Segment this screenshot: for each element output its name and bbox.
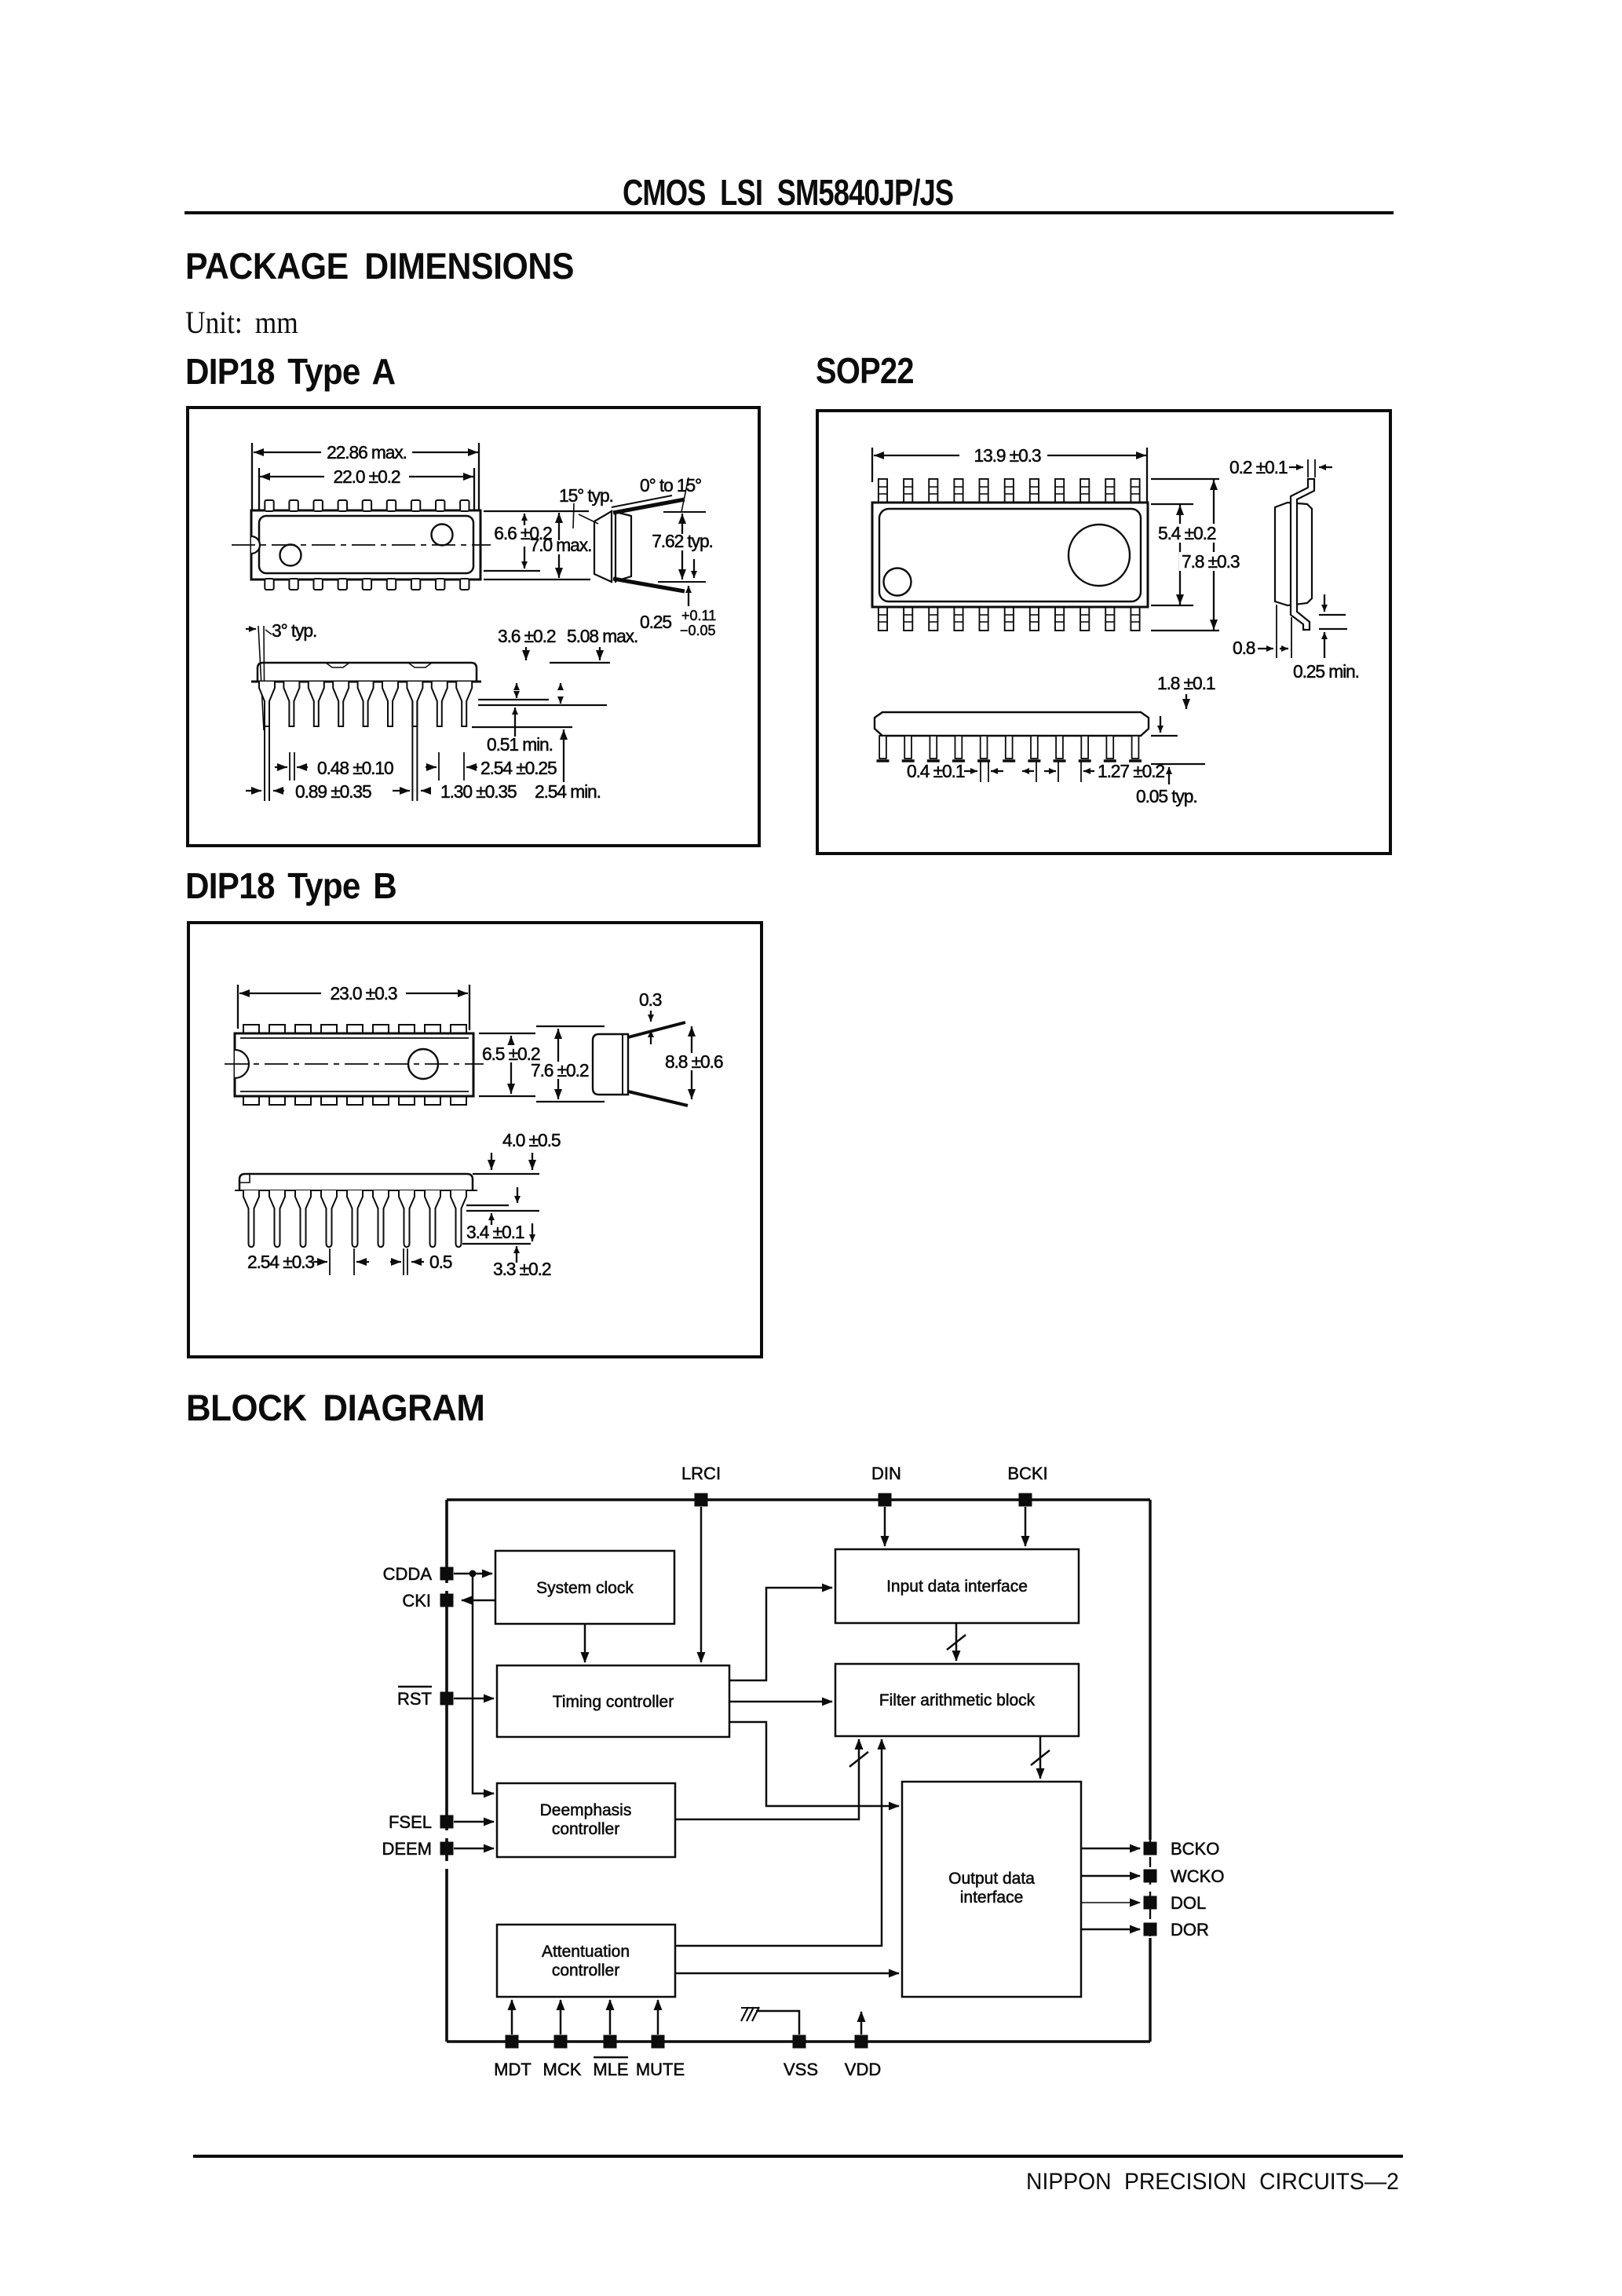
DIP18A index notch <box>251 536 260 554</box>
pin pad BCKO <box>1144 1842 1157 1855</box>
DIP18B center line <box>225 1063 484 1065</box>
DIP18A end view body <box>594 511 612 582</box>
unit note <box>185 304 298 341</box>
wire LRCI to Timing controller <box>700 1507 703 1662</box>
DIP18A label 3 deg typ <box>246 620 316 730</box>
header rule <box>184 211 1394 214</box>
pin pad CKI <box>440 1594 454 1607</box>
svg-text:0.3: 0.3 <box>639 989 662 1010</box>
DIP18A right extension lines <box>484 510 589 512</box>
chip boundary top edge <box>447 1498 1150 1501</box>
svg-text:2.54 ±0.25: 2.54 ±0.25 <box>480 758 557 778</box>
svg-text:0.48 ±0.10: 0.48 ±0.10 <box>317 758 393 778</box>
svg-text:FSEL: FSEL <box>389 1812 432 1832</box>
svg-text:5.08 max.: 5.08 max. <box>567 626 637 646</box>
DIP18B dim 23.0 +-0.3 <box>238 983 469 1030</box>
pin pad VSS <box>793 2035 806 2049</box>
wire MUTE to Attentuation controller <box>657 2000 659 2035</box>
subheading DIP18 Type B <box>185 865 396 907</box>
svg-text:MLE: MLE <box>593 2060 628 2079</box>
DIP18A dim 0.48 +-0.10 <box>275 752 393 781</box>
svg-text:Attentuation: Attentuation <box>542 1943 630 1961</box>
ground symbol <box>741 2007 759 2021</box>
DIP18B bottom view pins <box>243 1190 466 1247</box>
DIP18A dim 0.25 <box>640 559 716 638</box>
svg-text:13.9 ±0.3: 13.9 ±0.3 <box>974 445 1040 466</box>
svg-text:+0.11: +0.11 <box>681 608 716 623</box>
DIP18B package body top view <box>235 1033 473 1096</box>
svg-text:DOL: DOL <box>1171 1893 1206 1913</box>
wire MCK to Attentuation controller <box>560 2000 562 2035</box>
DIP18A bottom lead wing <box>613 512 706 591</box>
pin pad MDT <box>506 2035 519 2049</box>
block Output data interface U7 <box>902 1782 1081 1997</box>
pin pad DEEM <box>440 1842 454 1855</box>
wire Deemphasis controller to Filter arithmetic block <box>675 1739 868 1819</box>
wire Output data interface to DOL <box>1081 1902 1140 1903</box>
svg-text:3° typ.: 3° typ. <box>272 620 316 641</box>
DIP18A dim 6.6 +-0.2 <box>494 514 552 569</box>
DIP18B index notch <box>235 1050 249 1078</box>
DIP18B dim 4.0 +-0.5 <box>491 1130 561 1170</box>
DIP18B right extension lines <box>479 1033 535 1034</box>
svg-text:0.4 ±0.1: 0.4 ±0.1 <box>907 761 965 781</box>
svg-text:WCKO: WCKO <box>1171 1866 1224 1886</box>
svg-text:0.51 min.: 0.51 min. <box>487 734 553 755</box>
svg-text:controller: controller <box>552 1961 619 1980</box>
pin pad MCK <box>554 2035 568 2049</box>
DIP18A top view pin rows <box>265 500 469 590</box>
wire VSS to ground <box>756 2011 799 2035</box>
SOP22 standoff reference lines <box>1151 716 1205 784</box>
SOP22 dim 13.9 +-0.3 <box>872 445 1147 503</box>
SOP22 pin1 index circle <box>884 569 911 596</box>
SOP22 dim 0.2 +-0.1 <box>1229 457 1332 477</box>
svg-text:Timing controller: Timing controller <box>553 1693 674 1711</box>
DIP18B end view body <box>593 1034 628 1095</box>
svg-text:8.8 ±0.6: 8.8 ±0.6 <box>665 1051 723 1072</box>
svg-text:MUTE: MUTE <box>636 2060 685 2079</box>
svg-text:7.62 typ.: 7.62 typ. <box>652 531 713 551</box>
DIP18B bottom pin row <box>243 1096 466 1105</box>
DIP18A top lead wing <box>573 477 689 528</box>
svg-text:0.5: 0.5 <box>429 1252 452 1272</box>
DIP18B end view top lead wing <box>628 1022 685 1037</box>
pin pad BCKI <box>1019 1493 1032 1507</box>
wire DIN to Input data interface <box>884 1507 886 1546</box>
subheading SOP22 <box>816 349 914 392</box>
pin pad CDDA <box>440 1567 454 1581</box>
svg-text:3.3 ±0.2: 3.3 ±0.2 <box>493 1259 551 1279</box>
DIP18A dim 22.0 +-0.2 <box>259 466 474 510</box>
wire Timing controller to Input data interface <box>729 1588 832 1680</box>
svg-text:0.25: 0.25 <box>640 612 671 632</box>
svg-text:VDD: VDD <box>845 2060 881 2079</box>
svg-text:CDDA: CDDA <box>383 1564 433 1584</box>
wire System clock to CKI <box>462 1600 495 1602</box>
block Deemphasis controller U5 <box>497 1783 675 1857</box>
SOP22 package body <box>872 503 1148 607</box>
pin pad DIN <box>879 1493 892 1507</box>
wire BCKI to Input data interface <box>1025 1507 1027 1546</box>
wire Filter arithmetic block to Output data interface <box>1031 1736 1050 1779</box>
svg-text:DEEM: DEEM <box>382 1839 432 1859</box>
svg-text:Filter arithmetic block: Filter arithmetic block <box>879 1691 1036 1709</box>
DIP18B dimple circle <box>408 1049 438 1079</box>
wire CDDA to System clock <box>454 1573 492 1575</box>
chip boundary left edge <box>445 1500 448 2042</box>
svg-text:7.8 ±0.3: 7.8 ±0.3 <box>1182 551 1240 572</box>
svg-text:BCKI: BCKI <box>1007 1464 1047 1483</box>
wire Output data interface to DOR <box>1081 1929 1140 1931</box>
pin pad WCKO <box>1144 1870 1157 1883</box>
page header title <box>623 171 953 214</box>
DIP18A dim 2.54 min vertical <box>563 729 564 782</box>
block Filter arithmetic block U4 <box>835 1664 1079 1736</box>
svg-text:7.0 max.: 7.0 max. <box>530 535 592 555</box>
SOP22 dim 7.8 +-0.3 <box>1213 480 1215 630</box>
DIP18B dim 8.8 +-0.6 <box>663 1026 728 1099</box>
svg-text:Deemphasis: Deemphasis <box>540 1801 632 1819</box>
wire MDT to Attentuation controller <box>511 2000 513 2035</box>
SOP22 dim 0.4 +-0.1 <box>907 760 1036 782</box>
footer rule <box>193 2155 1403 2158</box>
block Timing controller U3 <box>497 1665 729 1737</box>
DIP18A dim 22.86 max <box>252 442 479 510</box>
DIP18B gap arrows <box>491 1187 532 1241</box>
svg-text:22.0 ±0.2: 22.0 ±0.2 <box>333 466 400 487</box>
pin pad MUTE <box>652 2035 665 2049</box>
DIP18A right reference lines <box>478 699 549 700</box>
SOP22 side view body <box>875 712 1149 736</box>
svg-text:2.54 ±0.3: 2.54 ±0.3 <box>247 1252 314 1272</box>
block Input data interface U2 <box>835 1549 1079 1623</box>
wire Output data interface to BCKO <box>1081 1848 1140 1850</box>
subheading DIP18 Type A <box>185 350 395 393</box>
DIP18B dim 2.54 +-0.3 <box>247 1249 369 1275</box>
SOP22 dim 1.8 +-0.1 <box>1157 673 1215 709</box>
SOP22 J-lead profile <box>1291 479 1314 630</box>
svg-text:22.86 max.: 22.86 max. <box>327 442 407 462</box>
wire Timing controller to Filter arithmetic block <box>729 1701 832 1703</box>
frame box DIP18 Type A <box>186 406 761 847</box>
svg-text:4.0 ±0.5: 4.0 ±0.5 <box>502 1130 561 1150</box>
svg-text:0.2 ±0.1: 0.2 ±0.1 <box>1229 457 1288 477</box>
DIP18A side view body <box>258 663 477 682</box>
DIP18B bottom view body <box>235 1174 539 1190</box>
frame box SOP22 <box>816 409 1392 855</box>
block Attentuation controller U6 <box>497 1925 675 1997</box>
pin pad RST <box>440 1692 454 1706</box>
SOP22 dim 1.27 +-0.2 <box>1044 760 1164 782</box>
SOP22 lead profile body <box>1275 503 1312 605</box>
svg-text:7.6 ±0.2: 7.6 ±0.2 <box>531 1060 589 1080</box>
svg-text:BCKO: BCKO <box>1171 1839 1219 1859</box>
DIP18A gap arrows right <box>517 683 561 704</box>
svg-text:MCK: MCK <box>543 2060 582 2079</box>
pin label MLE with overline <box>593 2057 628 2079</box>
svg-text:3.4 ±0.1: 3.4 ±0.1 <box>466 1222 524 1242</box>
svg-text:controller: controller <box>552 1820 619 1838</box>
pin pad VDD <box>855 2035 868 2049</box>
pin pad DOL <box>1144 1896 1157 1910</box>
pin pad FSEL <box>440 1815 454 1829</box>
svg-text:0° to 15°: 0° to 15° <box>640 475 701 495</box>
svg-text:DIN: DIN <box>871 1464 901 1483</box>
svg-text:System clock: System clock <box>536 1579 634 1597</box>
wire MLE to Attentuation controller <box>609 2000 612 2035</box>
SOP22 right extension lines <box>1151 478 1219 480</box>
wire Output data interface to WCKO <box>1081 1875 1140 1877</box>
DIP18B right reference lines <box>462 1205 539 1244</box>
DIP18A dim 0.51 min <box>487 707 553 755</box>
svg-text:0.89 ±0.35: 0.89 ±0.35 <box>295 781 371 802</box>
svg-text:3.6 ±0.2: 3.6 ±0.2 <box>498 626 556 646</box>
pin label RST with overline <box>397 1687 432 1709</box>
pin pad MLE <box>604 2035 617 2049</box>
SOP22 large dimple circle <box>1069 525 1130 586</box>
DIP18A dimple circles <box>432 525 453 546</box>
svg-text:−0.05: −0.05 <box>680 623 716 638</box>
SOP22 top pin row <box>879 479 1140 503</box>
DIP18B dim 7.6 +-0.2 <box>529 1029 592 1099</box>
DIP18A dim 1.30 +-0.35 <box>393 781 517 802</box>
DIP18B dim 0.3 <box>639 989 662 1044</box>
SOP22 side view feet <box>877 736 1142 761</box>
wire FSEL to Deemphasis controller <box>454 1821 494 1823</box>
wire RST to Timing controller <box>454 1698 494 1700</box>
svg-text:interface: interface <box>960 1888 1024 1907</box>
DIP18A dim 2.54 +-0.25 <box>426 752 557 781</box>
svg-text:LRCI: LRCI <box>681 1464 721 1483</box>
svg-text:15° typ.: 15° typ. <box>559 485 613 506</box>
SOP22 dim 5.4 +-0.2 <box>1179 505 1181 605</box>
svg-text:Input data interface: Input data interface <box>886 1578 1028 1596</box>
chip boundary bottom edge <box>447 2040 1150 2043</box>
DIP18A package body top view <box>251 510 480 579</box>
footer text <box>1026 2169 1399 2195</box>
section heading BLOCK DIAGRAM <box>186 1386 484 1429</box>
svg-text:RST: RST <box>397 1689 432 1709</box>
wire Attentuation controller to Output data interface <box>675 1972 899 1975</box>
SOP22 dim 0.8 <box>1233 605 1291 658</box>
DIP18B dim 0.5 <box>390 1249 452 1275</box>
wire DEEM to Deemphasis controller <box>454 1848 494 1850</box>
svg-text:23.0 ±0.3: 23.0 ±0.3 <box>330 983 396 1004</box>
node junction CDDA branch <box>469 1570 477 1578</box>
wire CDDA branch to Deemphasis controller <box>473 1574 494 1793</box>
svg-text:VSS: VSS <box>784 2060 818 2079</box>
svg-text:MDT: MDT <box>494 2060 532 2079</box>
chip boundary right edge <box>1149 1500 1151 2042</box>
DIP18B top pin row <box>243 1025 466 1033</box>
DIP18A side view pins <box>259 682 472 801</box>
pin pad DOR <box>1144 1923 1157 1936</box>
DIP18B dim 3.3 +-0.2 <box>493 1246 551 1279</box>
svg-text:0.25 min.: 0.25 min. <box>1293 661 1359 682</box>
wire Attentuation controller to Filter arithmetic block <box>675 1739 882 1946</box>
svg-text:DOR: DOR <box>1171 1920 1209 1940</box>
svg-text:1.8 ±0.1: 1.8 ±0.1 <box>1157 673 1215 693</box>
wire Timing controller to Output data interface <box>729 1722 899 1806</box>
svg-text:Output data: Output data <box>948 1870 1035 1888</box>
svg-text:0.8: 0.8 <box>1233 638 1255 658</box>
DIP18A dim 0.89 +-0.35 <box>246 781 371 802</box>
svg-text:2.54 min.: 2.54 min. <box>535 781 601 802</box>
DIP18B end view bottom lead wing <box>628 1091 688 1106</box>
svg-text:0.05 typ.: 0.05 typ. <box>1136 786 1197 806</box>
DIP18B dim 6.5 +-0.2 <box>480 1036 543 1094</box>
wire VDD supply arrow <box>860 2012 863 2035</box>
frame box DIP18 Type B <box>187 921 763 1358</box>
DIP18A dim 7.0 max <box>530 513 592 578</box>
section heading <box>185 244 574 287</box>
DIP18A center line <box>232 544 491 546</box>
SOP22 dim 0.25 min <box>1293 594 1359 682</box>
wire Input data interface to Filter arithmetic block <box>947 1623 966 1661</box>
wire System clock to Timing controller <box>584 1624 586 1662</box>
DIP18A labels 3.6 and 5.08 <box>498 626 637 660</box>
block System clock U1 <box>495 1551 674 1624</box>
DIP18A dim 7.62 typ <box>652 514 713 579</box>
svg-text:1.30 ±0.35: 1.30 ±0.35 <box>440 781 517 802</box>
SOP22 bottom pin row <box>879 607 1140 631</box>
svg-text:5.4 ±0.2: 5.4 ±0.2 <box>1158 523 1216 543</box>
svg-text:CKI: CKI <box>402 1591 431 1610</box>
pin pad LRCI <box>695 1493 708 1507</box>
